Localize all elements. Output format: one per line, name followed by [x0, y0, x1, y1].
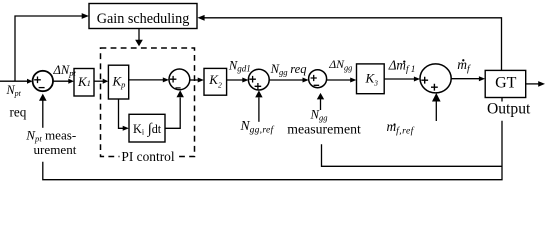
arrowhead into S2 left: [163, 77, 169, 82]
svg-text:Npt: Npt: [6, 83, 22, 98]
wire input Npt req: [0, 80, 30, 82]
wire K1 to Kp: [94, 80, 105, 82]
arrowhead Ngg,ref into S3 bottom: [255, 90, 262, 97]
wire S5 to GT: [451, 78, 481, 80]
block GT: [485, 70, 526, 97]
svg-text:Ngd1: Ngd1: [228, 59, 251, 74]
block Gain scheduling: [89, 4, 197, 29]
arrowhead into gain scheduling right: [197, 15, 204, 21]
svg-text:PI control: PI control: [121, 149, 174, 164]
wire Npt measurement arrow line: [42, 100, 44, 128]
svg-text:Gain scheduling: Gain scheduling: [97, 11, 190, 27]
wire Kp down to Ki integrator: [119, 99, 126, 128]
svg-text:mf,ref: mf,ref: [387, 119, 415, 136]
arrowhead into S4 left: [303, 78, 309, 83]
label delta mf1: [388, 58, 416, 75]
block Ki integrator: [129, 114, 165, 142]
wire Kp to S2: [129, 79, 166, 81]
svg-text:req: req: [10, 105, 27, 120]
arrowhead into Ki box: [123, 126, 129, 131]
arrowhead into K3: [350, 78, 356, 83]
dashed box PI control: [101, 48, 195, 157]
svg-text:Output: Output: [487, 101, 531, 118]
wire GT bottom to outer rail: [43, 121, 502, 180]
wire mf,ref arrow line: [435, 100, 437, 121]
wire S3 to S4: [269, 79, 305, 81]
svg-text:Δmf1: Δmf1: [388, 58, 416, 75]
arrowhead into gain scheduling left: [82, 13, 89, 19]
arrowhead into S3 left: [242, 78, 248, 83]
wire K2 to S3: [227, 79, 245, 81]
wire S4 to K3: [327, 79, 353, 81]
arrowhead into K1: [68, 79, 74, 84]
wire S2 to K2: [190, 79, 201, 81]
svg-text:urement: urement: [34, 142, 77, 157]
svg-text:ΔNpt: ΔNpt: [53, 63, 77, 78]
wire Ki to S2: [165, 98, 180, 129]
svg-text:Nggreq: Nggreq: [270, 62, 307, 77]
wire Ngg measurement arrow line: [320, 99, 322, 110]
wire branch to gain scheduling: [15, 16, 86, 81]
arrowhead into GT: [479, 76, 485, 81]
arrowhead into S5 left: [414, 77, 420, 82]
arrowhead Ki into S2 bottom: [177, 90, 184, 97]
svg-text:ΔNgg: ΔNgg: [328, 57, 352, 72]
wire S1 to K1: [53, 80, 70, 82]
block K2: [204, 68, 227, 95]
svg-text:Ki ∫dt: Ki ∫dt: [133, 121, 162, 137]
arrowhead into K2: [198, 78, 204, 83]
label PI control: [120, 149, 177, 164]
summing junction S1: [33, 71, 53, 91]
svg-text:mf: mf: [457, 57, 471, 75]
summing junction S2: [169, 69, 190, 90]
block K1: [74, 69, 94, 97]
svg-text:GT: GT: [495, 74, 517, 91]
wire GT top feedback to gain scheduling: [201, 18, 502, 71]
summing junction S5: [420, 64, 451, 93]
block K3: [357, 64, 385, 94]
svg-text:Ngg: Ngg: [310, 108, 328, 123]
wire gain scheduling down to PI box: [138, 29, 140, 41]
wire Ngg,ref arrow line: [258, 98, 260, 122]
block Kp: [108, 65, 128, 99]
summing junction S4: [309, 70, 327, 88]
wire inner rail to Ngg measurement: [322, 144, 503, 166]
arrowhead mf,ref into S5 bottom: [432, 93, 441, 102]
label mf,ref: [387, 119, 415, 136]
wire K3 to S5: [384, 78, 416, 80]
label mf: [457, 57, 471, 75]
arrowhead gain scheduling down into PI box: [135, 40, 143, 47]
svg-text:Ngg,ref: Ngg,ref: [240, 118, 275, 135]
arrowhead into Kp: [103, 79, 109, 84]
arrowhead into S1: [27, 79, 33, 84]
summing junction S3: [248, 69, 269, 90]
wire GT bottom tick: [501, 98, 503, 102]
arrowhead Ngg measurement into S4 bottom: [317, 93, 324, 100]
arrowhead Npt measurement into S1 bottom: [39, 94, 47, 101]
svg-text:measurement: measurement: [287, 122, 361, 137]
arrowhead GT output: [538, 81, 545, 87]
wire GT output: [526, 83, 541, 85]
